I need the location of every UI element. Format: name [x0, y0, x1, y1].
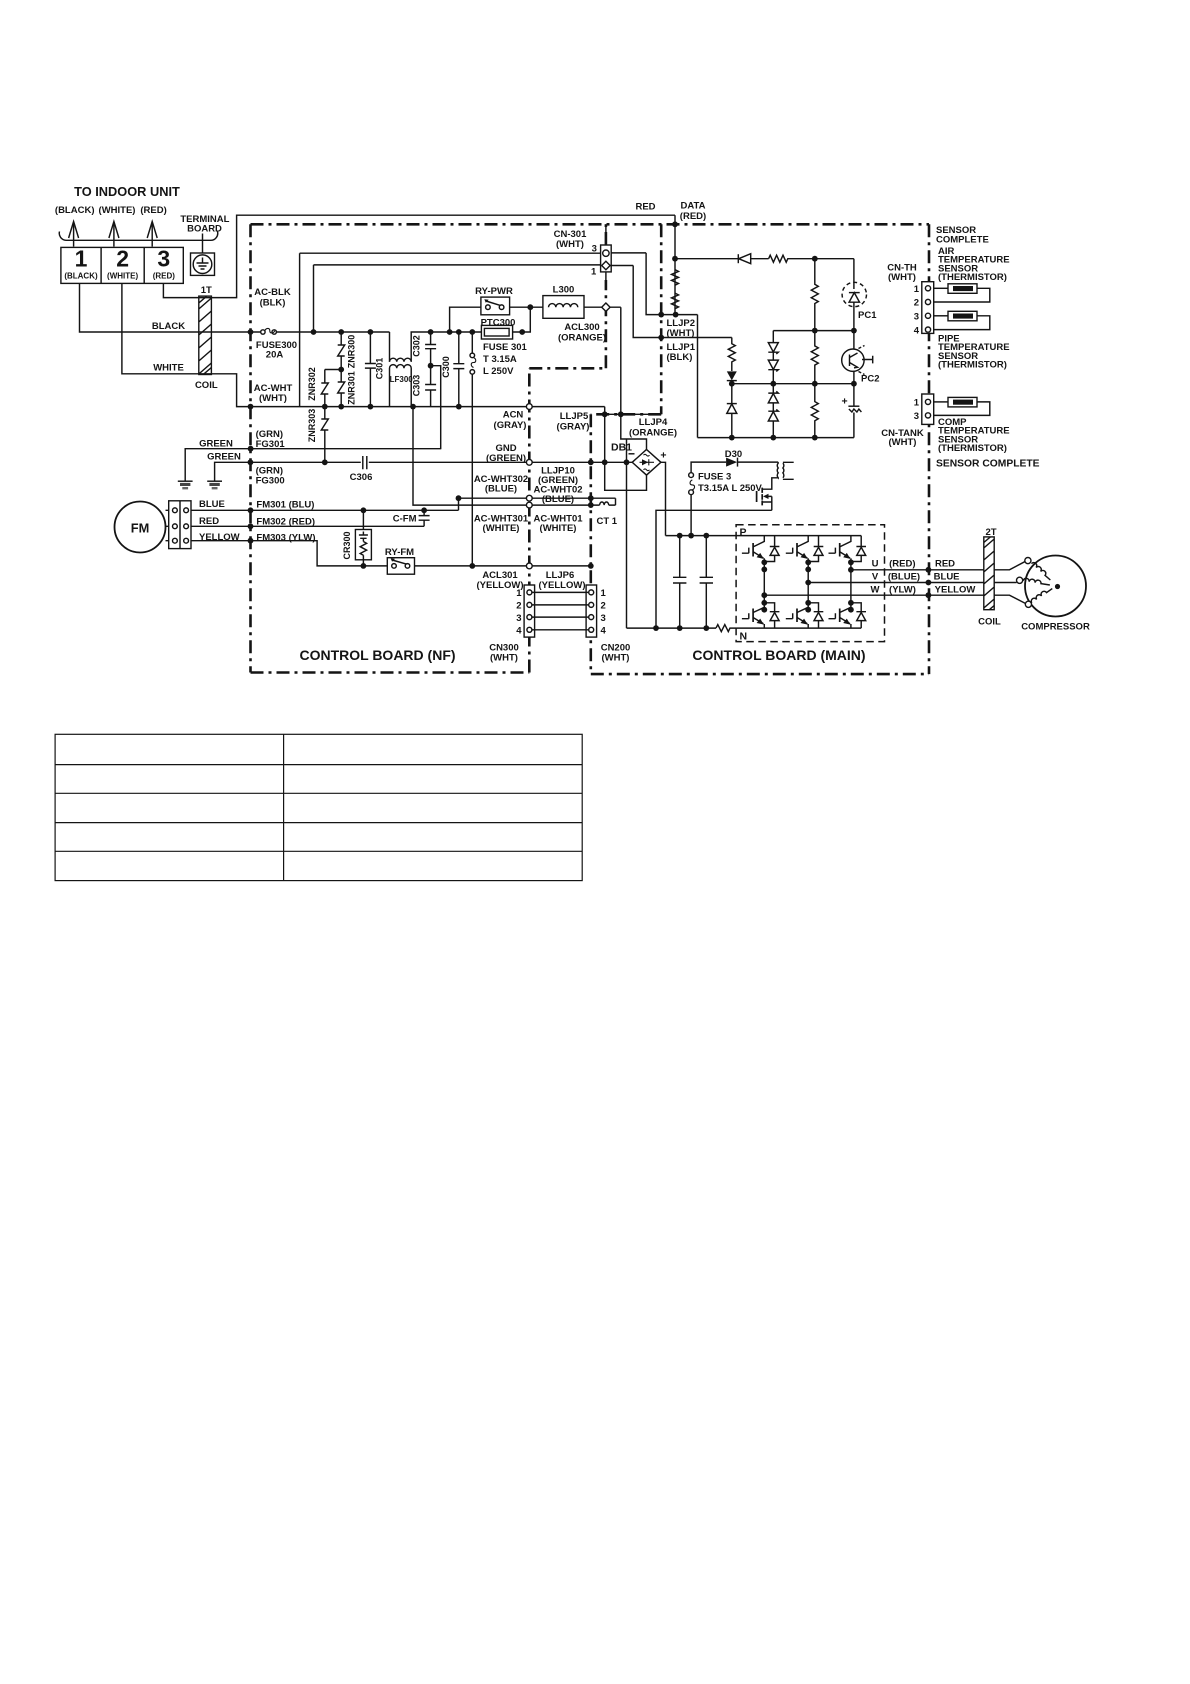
- svg-text:4: 4: [914, 325, 920, 336]
- box IPM inverter: [736, 525, 884, 642]
- svg-text:COMPLETE: COMPLETE: [936, 235, 989, 246]
- svg-text:4: 4: [516, 625, 522, 636]
- IGBT U2 top leg2: [786, 536, 824, 563]
- svg-text:LF300: LF300: [390, 375, 414, 384]
- pin LLJP4 diamond on border: [602, 303, 610, 311]
- table empty 5x2: [55, 734, 582, 880]
- svg-text:4: 4: [601, 625, 607, 636]
- svg-text:T 3.15A: T 3.15A: [483, 354, 517, 365]
- connector CN-TANK: [922, 394, 934, 424]
- resistor ladder x815 mid: [811, 331, 818, 384]
- wire terminal3 to RED line: [163, 215, 675, 297]
- svg-text:(WHT): (WHT): [556, 239, 584, 250]
- svg-text:LLJP5: LLJP5: [560, 411, 589, 422]
- inductor L300: [543, 296, 584, 319]
- pin ACL301 on border: [526, 563, 532, 569]
- wire L300 out to border pin: [584, 307, 621, 414]
- relay RY-PWR: [481, 297, 510, 315]
- capacitor C306: [363, 456, 367, 469]
- svg-text:(RED): (RED): [680, 211, 706, 222]
- connector CN300: [524, 585, 535, 637]
- svg-text:FM303 (YLW): FM303 (YLW): [256, 532, 315, 543]
- wire CN300-CN200 link 2: [532, 604, 589, 606]
- svg-text:DATA: DATA: [681, 201, 706, 212]
- fuse FUSE 3: [689, 462, 726, 535]
- svg-text:TO INDOOR UNIT: TO INDOOR UNIT: [74, 184, 180, 199]
- svg-text:SENSOR COMPLETE: SENSOR COMPLETE: [936, 459, 1040, 470]
- transformer CT 1: [600, 502, 609, 505]
- ground FG300: [207, 481, 222, 489]
- wire primary to mosfet drain: [763, 478, 778, 489]
- connector FM plug: [166, 501, 192, 549]
- wire terminal2 white: [122, 283, 605, 406]
- ground FG301: [178, 481, 193, 489]
- pin ACN on border: [526, 404, 532, 410]
- thermistor COMP: [934, 397, 990, 415]
- compressor star point: [1055, 584, 1060, 589]
- svg-text:BLUE: BLUE: [199, 499, 225, 510]
- rectifier DB1: [632, 450, 661, 476]
- wire FG300 green: [215, 462, 530, 481]
- wire FG301 green: [185, 449, 441, 482]
- svg-text:1: 1: [516, 588, 522, 599]
- board border NF left: [249, 224, 252, 672]
- compressor winding V: [1023, 578, 1050, 585]
- wire LLJP2 line: [611, 253, 698, 315]
- resistor R-data horizontal: [769, 255, 854, 262]
- pin AC-WHT302 on border: [526, 495, 532, 501]
- wire C302 C303 midpoint to FG301: [431, 366, 441, 450]
- svg-text:(THERMISTOR): (THERMISTOR): [938, 360, 1007, 371]
- svg-text:2: 2: [914, 298, 919, 309]
- diode network left lower: [727, 384, 737, 438]
- svg-text:PC2: PC2: [861, 374, 879, 385]
- svg-text:(WHT): (WHT): [889, 437, 917, 448]
- svg-text:AC-BLK: AC-BLK: [254, 287, 291, 298]
- svg-text:BOARD: BOARD: [187, 224, 222, 235]
- svg-text:+: +: [660, 450, 666, 462]
- svg-text:FUSE 301: FUSE 301: [483, 342, 528, 353]
- inductor LF300 top winding: [390, 358, 412, 362]
- pin GND on border: [526, 459, 532, 465]
- svg-text:3: 3: [592, 244, 597, 255]
- motor FM: [115, 502, 166, 553]
- coil 2T hatched: [984, 537, 994, 610]
- connector CN-TH: [922, 282, 934, 334]
- IGBT U5 bottom leg2: [786, 603, 824, 628]
- resistor ladder x815 bottom: [811, 384, 818, 438]
- wire P rail: [666, 535, 862, 537]
- svg-text:FG300: FG300: [256, 476, 285, 487]
- svg-text:COIL: COIL: [978, 617, 1001, 628]
- wire PTC out jog: [522, 307, 530, 332]
- zener pair upper x773: [768, 331, 778, 384]
- label minus: [629, 453, 635, 455]
- capacitor C302: [425, 332, 436, 366]
- wire CN-301 pin1 to BLACK tap: [314, 265, 602, 332]
- fuse FUSE301: [470, 332, 476, 566]
- svg-text:(RED): (RED): [140, 205, 166, 216]
- wire CN300-CN200 link 4: [532, 629, 589, 631]
- svg-text:(WHITE): (WHITE): [483, 523, 520, 534]
- wire FM301 blue: [191, 498, 459, 510]
- svg-text:(WHITE): (WHITE): [99, 205, 136, 216]
- relay RY-PWR tap wire: [450, 307, 481, 332]
- wire LLJP1 line: [611, 266, 732, 338]
- svg-text:3: 3: [157, 246, 170, 272]
- capacitor bus C2: [700, 536, 713, 629]
- connector CN200: [586, 585, 597, 637]
- svg-text:GREEN: GREEN: [207, 452, 241, 463]
- compressor circle: [1025, 556, 1086, 617]
- capacitor electrolytic C-main: [848, 384, 861, 438]
- svg-text:(BLK): (BLK): [667, 352, 693, 363]
- snubber CR300: [355, 510, 371, 566]
- wire U phase: [851, 561, 1026, 570]
- arrow to indoor 1: [69, 222, 79, 247]
- svg-text:3: 3: [516, 613, 521, 624]
- svg-text:RY-FM: RY-FM: [385, 547, 414, 558]
- svg-text:BLUE: BLUE: [934, 572, 960, 583]
- svg-text:FM: FM: [131, 521, 149, 536]
- svg-text:1T: 1T: [201, 285, 212, 296]
- svg-text:C302: C302: [412, 335, 422, 357]
- svg-text:RED: RED: [635, 202, 655, 213]
- earth terminal symbol: [193, 255, 212, 274]
- svg-text:FUSE 3: FUSE 3: [698, 472, 731, 483]
- thermistor PTC300: [481, 325, 512, 339]
- wire ACN jog to LLJP4 line: [605, 407, 662, 415]
- svg-text:C-FM: C-FM: [393, 514, 417, 525]
- wire DB1 plus down to P rail: [661, 462, 666, 535]
- brace under arrows: [59, 232, 217, 241]
- svg-text:3: 3: [914, 411, 919, 422]
- wire network upper line: [773, 330, 854, 332]
- capacitor bus C1: [673, 536, 686, 629]
- svg-text:2: 2: [116, 246, 129, 272]
- svg-text:V: V: [872, 572, 879, 583]
- wire mosfet source to N: [656, 510, 772, 628]
- svg-text:(THERMISTOR): (THERMISTOR): [938, 443, 1007, 454]
- svg-text:CR300: CR300: [342, 531, 352, 559]
- svg-text:1: 1: [591, 267, 597, 278]
- board border MAIN left step: [591, 413, 661, 416]
- svg-text:RY-PWR: RY-PWR: [475, 286, 513, 297]
- resistor N shunt: [716, 625, 736, 632]
- varistor ZNR300: [338, 332, 345, 370]
- wire leg2 phase: [807, 562, 809, 607]
- svg-text:ZNR302: ZNR302: [307, 367, 317, 401]
- junction dots: [248, 221, 932, 631]
- svg-text:(RED): (RED): [153, 272, 176, 281]
- compressor winding U: [1032, 561, 1053, 580]
- board border MAIN left: [660, 224, 663, 414]
- svg-text:ACN: ACN: [503, 410, 524, 421]
- wire CN-301 pin3 to AC-WHT tap: [300, 253, 601, 406]
- arrow to indoor 2: [109, 222, 119, 247]
- svg-text:P: P: [740, 527, 747, 539]
- terminal board box: [61, 247, 183, 283]
- svg-text:BLACK: BLACK: [152, 321, 185, 332]
- wire FM303 yellow: [191, 541, 387, 566]
- svg-text:FM301 (BLU): FM301 (BLU): [256, 500, 314, 511]
- resistor ladder x815 top: [811, 259, 818, 331]
- varistor ZNR303: [321, 407, 328, 463]
- svg-text:20A: 20A: [266, 350, 284, 361]
- wire ZNR mid tap: [325, 369, 341, 371]
- svg-text:1: 1: [75, 246, 88, 272]
- board border top (NF and MAIN): [251, 223, 930, 226]
- svg-text:C303: C303: [412, 375, 422, 397]
- svg-text:(WHITE): (WHITE): [107, 272, 138, 281]
- wire DATA red into MAIN: [674, 215, 676, 314]
- wire terminal1 black: [80, 283, 261, 332]
- svg-text:(YLW): (YLW): [889, 585, 916, 596]
- wire CN300-CN200 link 3: [532, 616, 589, 618]
- svg-text:(GRAY): (GRAY): [494, 420, 527, 431]
- earth terminal box: [191, 253, 215, 275]
- resistor chain R-data lower: [672, 293, 679, 309]
- svg-text:(BLK): (BLK): [260, 298, 286, 309]
- svg-text:U: U: [872, 559, 879, 570]
- coil 1T hatched: [199, 296, 212, 374]
- wire network mid line: [732, 383, 854, 385]
- svg-text:(GRAY): (GRAY): [557, 422, 590, 433]
- svg-text:N: N: [740, 631, 748, 643]
- svg-text:(ORANGE): (ORANGE): [558, 333, 606, 344]
- svg-text:1: 1: [914, 398, 920, 409]
- svg-text:WHITE: WHITE: [153, 363, 184, 374]
- transistor Q-smps mosfet: [757, 488, 772, 511]
- svg-text:(WHT): (WHT): [490, 653, 518, 664]
- thermistor AIR: [934, 284, 990, 302]
- capacitor C300: [453, 332, 464, 407]
- terminal cell dividers: [101, 247, 144, 283]
- svg-text:2T: 2T: [985, 527, 996, 538]
- IGBT U1 top leg1: [742, 536, 780, 563]
- wire leg1 phase: [763, 562, 765, 607]
- board border MAIN right: [928, 224, 931, 674]
- svg-text:ACL300: ACL300: [564, 322, 599, 333]
- capacitor C303: [425, 366, 436, 407]
- svg-text:(ORANGE): (ORANGE): [629, 428, 677, 439]
- capacitor C301: [365, 332, 376, 407]
- relay RY-FM: [387, 558, 414, 575]
- svg-text:L 250V: L 250V: [483, 366, 514, 377]
- svg-text:2: 2: [601, 600, 606, 611]
- wire ACL301: [415, 565, 591, 567]
- svg-text:YELLOW: YELLOW: [935, 585, 976, 596]
- capacitor C-FM: [419, 510, 430, 526]
- svg-text:(BLUE): (BLUE): [542, 494, 574, 505]
- svg-text:RED: RED: [935, 559, 955, 570]
- svg-text:FM302 (RED): FM302 (RED): [256, 516, 315, 527]
- svg-text:(YELLOW): (YELLOW): [539, 580, 586, 591]
- wire AC-WHT301 tap from ACN: [413, 407, 529, 506]
- svg-text:CONTROL BOARD (NF): CONTROL BOARD (NF): [299, 647, 455, 663]
- connector CN-301: [601, 224, 612, 280]
- wire black jog up after winding: [411, 332, 522, 362]
- inductor LF300 bottom winding: [390, 365, 412, 407]
- IGBT U6 bottom leg3: [829, 603, 867, 628]
- arrow to indoor 3: [147, 222, 157, 247]
- svg-text:C300: C300: [441, 356, 451, 378]
- board border NF bottom: [251, 671, 530, 674]
- svg-text:T3.15A L 250V: T3.15A L 250V: [698, 483, 763, 494]
- wire AC-WHT302: [459, 497, 591, 499]
- svg-text:(BLACK): (BLACK): [55, 205, 95, 216]
- svg-text:1: 1: [914, 284, 920, 295]
- board border MAIN bottom: [591, 673, 929, 676]
- transformer T-smps secondary: [782, 463, 785, 478]
- wire LLJP2 drop to network: [697, 315, 699, 438]
- svg-text:COMPRESSOR: COMPRESSOR: [1021, 622, 1090, 633]
- transformer T-smps primary: [776, 462, 779, 478]
- wire network bottom line: [698, 437, 854, 439]
- svg-text:+: +: [842, 396, 848, 408]
- svg-text:L300: L300: [553, 285, 575, 296]
- wire AC-WHT01 to CT1: [532, 498, 615, 505]
- thermistor PIPE: [934, 311, 990, 329]
- board border NF step: [529, 367, 606, 370]
- photocoupler PC2: [842, 331, 873, 384]
- pin AC-WHT301 on border: [526, 502, 532, 508]
- svg-text:ZNR303: ZNR303: [307, 409, 317, 443]
- svg-text:GREEN: GREEN: [199, 438, 233, 449]
- wire LLJP10 to DB1 minus: [532, 461, 632, 463]
- svg-text:PC1: PC1: [858, 310, 877, 321]
- board border NF right lower: [528, 368, 531, 672]
- wire DB1 minus to N: [626, 439, 628, 628]
- wire black jog through LF300 top winding: [389, 332, 391, 362]
- terminal board pointer: [202, 234, 204, 254]
- svg-text:C301: C301: [375, 358, 385, 380]
- svg-text:3: 3: [601, 613, 606, 624]
- wire relay out: [510, 306, 543, 308]
- wire V phase: [808, 582, 1016, 584]
- svg-text:(WHITE): (WHITE): [540, 523, 577, 534]
- svg-text:(WHT): (WHT): [888, 272, 916, 283]
- svg-text:COIL: COIL: [195, 380, 218, 391]
- resistor chain R-data upper: [672, 270, 679, 286]
- svg-text:C306: C306: [350, 472, 373, 483]
- svg-text:(GREEN): (GREEN): [486, 453, 526, 464]
- compressor terminal U: [1025, 558, 1031, 564]
- zener pair lower x773: [768, 384, 778, 438]
- svg-text:(BLUE): (BLUE): [888, 572, 920, 583]
- wire CN300-CN200 link 1: [532, 591, 589, 593]
- wire W phase: [764, 595, 1026, 603]
- svg-text:RED: RED: [199, 516, 219, 527]
- svg-text:(WHT): (WHT): [259, 393, 287, 404]
- svg-text:CONTROL BOARD (MAIN): CONTROL BOARD (MAIN): [692, 647, 865, 663]
- svg-text:DB1: DB1: [611, 442, 632, 454]
- compressor terminal V: [1017, 577, 1023, 583]
- wire FM302 red: [191, 525, 424, 527]
- IGBT U4 bottom leg1: [742, 603, 780, 628]
- svg-text:(WHT): (WHT): [602, 653, 630, 664]
- svg-text:3: 3: [914, 312, 919, 323]
- svg-text:2: 2: [516, 600, 521, 611]
- svg-text:ZNR300: ZNR300: [347, 335, 357, 369]
- compressor terminal W: [1025, 601, 1031, 607]
- svg-text:1: 1: [601, 588, 607, 599]
- fuse FUSE300: [261, 328, 277, 334]
- wire N rail: [627, 627, 717, 629]
- resistor R network left: [728, 338, 735, 370]
- diode D30: [726, 458, 778, 467]
- svg-text:LLJP4: LLJP4: [639, 417, 668, 428]
- wire N rail inside: [736, 627, 861, 629]
- diode D-data: [738, 254, 768, 264]
- photocoupler PC1: [842, 259, 866, 331]
- svg-text:(BLUE): (BLUE): [485, 484, 517, 495]
- compressor winding W: [1030, 586, 1052, 603]
- IGBT U3 top leg3: [829, 536, 867, 563]
- wire ACN to DB1 ac bottom: [605, 414, 647, 490]
- wire black line after fuse: [276, 331, 389, 333]
- svg-text:W: W: [871, 585, 880, 596]
- board border NF right upper: [605, 224, 608, 368]
- svg-text:(THERMISTOR): (THERMISTOR): [938, 272, 1007, 283]
- svg-text:(BLACK): (BLACK): [64, 272, 98, 281]
- wire diode branch y259: [675, 258, 738, 260]
- diode network left upper: [727, 369, 737, 384]
- varistor ZNR301: [338, 370, 345, 407]
- svg-text:CT 1: CT 1: [597, 516, 618, 527]
- wire leg3 phase: [850, 562, 852, 607]
- board border MAIN left lower: [589, 414, 592, 672]
- varistor ZNR302: [321, 370, 328, 407]
- wire LLJP4 to DB1 ac top: [621, 414, 647, 449]
- wire secondary stubs: [783, 462, 794, 479]
- svg-text:ZNR301: ZNR301: [347, 371, 357, 405]
- svg-text:(RED): (RED): [889, 559, 915, 570]
